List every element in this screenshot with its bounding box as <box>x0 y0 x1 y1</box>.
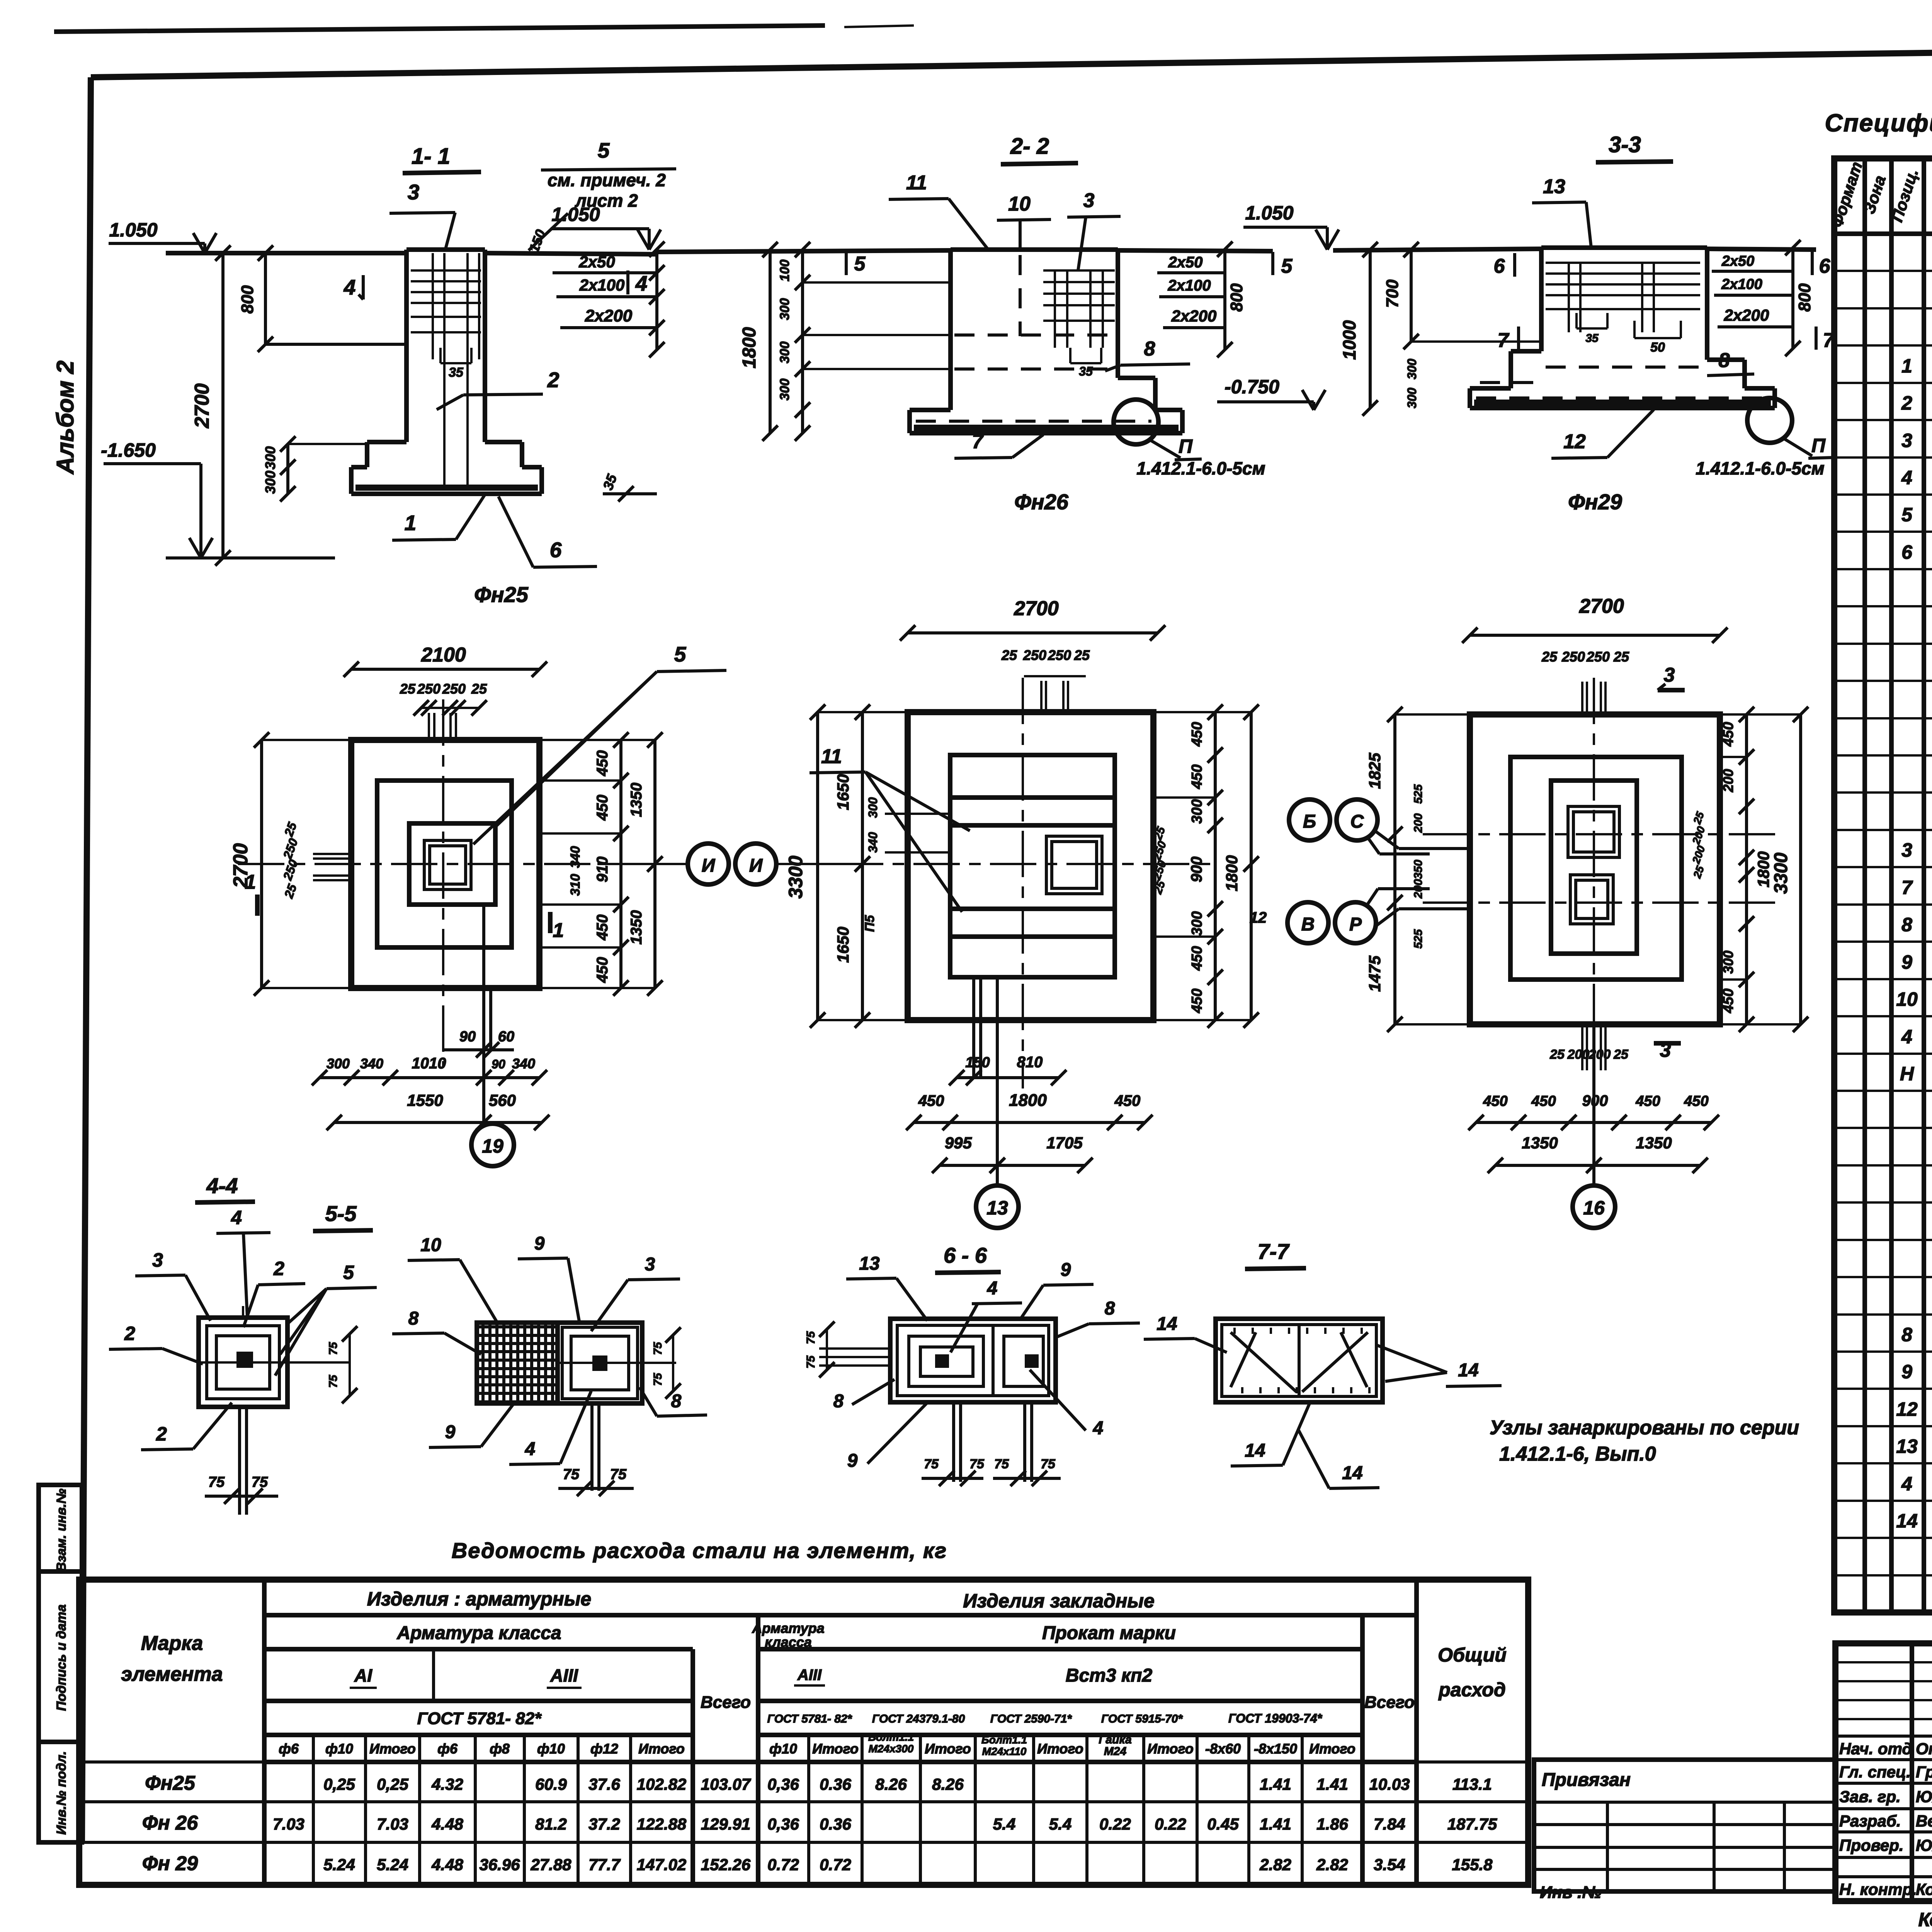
svg-text:3300: 3300 <box>785 855 806 898</box>
svg-text:2х200: 2х200 <box>1724 306 1769 324</box>
svg-text:340: 340 <box>866 832 880 853</box>
svg-text:8: 8 <box>1144 338 1155 360</box>
plan Fn26 mesh band lines <box>950 795 1115 800</box>
svg-text:37.2: 37.2 <box>588 1815 620 1833</box>
svg-text:75: 75 <box>327 1374 340 1388</box>
svg-text:9: 9 <box>1901 1361 1912 1383</box>
svg-text:1475: 1475 <box>1366 956 1384 992</box>
section 1-1 dim 2700 <box>221 253 224 558</box>
svg-text:0,25: 0,25 <box>377 1775 408 1793</box>
svg-text:ГОСТ 19903-74*: ГОСТ 19903-74* <box>1228 1711 1323 1725</box>
svg-text:1.050: 1.050 <box>109 219 157 241</box>
svg-text:Итого: Итого <box>1309 1741 1355 1757</box>
svg-text:1650: 1650 <box>834 927 852 963</box>
svg-text:4: 4 <box>635 271 648 295</box>
svg-text:75: 75 <box>208 1474 225 1490</box>
svg-text:700: 700 <box>1383 279 1402 308</box>
svg-text:ф10: ф10 <box>537 1741 565 1757</box>
svg-text:450: 450 <box>1189 988 1205 1013</box>
section 7-7 body <box>1216 1319 1383 1402</box>
node circle 19 <box>471 1124 514 1166</box>
page outer scan edge top <box>54 26 825 32</box>
section 6-6 body <box>890 1319 1056 1402</box>
steel table small column lines <box>312 1735 315 1885</box>
grid circles I I <box>688 844 729 884</box>
section 5-5 mesh grid <box>481 1325 485 1402</box>
steel table header bands <box>262 1580 267 1885</box>
svg-text:250: 250 <box>1561 649 1585 665</box>
svg-text:Итого: Итого <box>925 1741 971 1757</box>
svg-text:75: 75 <box>1041 1457 1056 1471</box>
svg-text:Гайка: Гайка <box>1099 1733 1131 1746</box>
svg-text:ф6: ф6 <box>437 1741 458 1757</box>
svg-text:Изделия закладные: Изделия закладные <box>963 1590 1155 1612</box>
section 2-2 left dim stack <box>769 250 772 433</box>
svg-text:13: 13 <box>1896 1435 1918 1457</box>
svg-text:Всего: Всего <box>701 1693 751 1712</box>
svg-text:0,36: 0,36 <box>767 1815 799 1833</box>
section 3-3 slab <box>1470 386 1511 391</box>
svg-text:ф6: ф6 <box>279 1741 299 1757</box>
section 3-3 anchor brackets <box>1575 313 1578 328</box>
svg-text:3: 3 <box>1083 189 1095 212</box>
svg-text:300: 300 <box>777 298 792 320</box>
drawing frame border <box>91 43 1932 77</box>
section 1-1 column <box>406 247 485 252</box>
svg-text:2: 2 <box>124 1323 135 1344</box>
svg-text:АI: АI <box>354 1665 372 1685</box>
svg-text:И: И <box>749 855 763 876</box>
svg-text:Арматура: Арматура <box>752 1620 824 1636</box>
svg-text:14: 14 <box>1245 1440 1265 1461</box>
svg-text:300: 300 <box>262 471 278 494</box>
svg-text:В: В <box>1301 914 1315 935</box>
svg-text:450: 450 <box>1720 988 1736 1013</box>
svg-text:Онуфриенко: Онуфриенко <box>1916 1740 1932 1758</box>
svg-text:0.72: 0.72 <box>820 1855 851 1874</box>
svg-text:340: 340 <box>568 846 583 868</box>
section 2-2 ground lines <box>657 250 951 252</box>
privyazan box <box>1534 1760 1835 1891</box>
svg-text:800: 800 <box>1227 283 1246 312</box>
svg-text:7-7: 7-7 <box>1258 1239 1290 1264</box>
svg-text:1.41: 1.41 <box>1260 1775 1291 1793</box>
svg-text:5: 5 <box>598 138 610 162</box>
svg-text:5.24: 5.24 <box>323 1855 355 1874</box>
svg-text:300: 300 <box>777 342 792 364</box>
svg-text:450: 450 <box>1531 1093 1556 1109</box>
plan Fn25 middle rect <box>377 781 512 947</box>
svg-text:147.02: 147.02 <box>637 1855 686 1874</box>
svg-text:300: 300 <box>777 379 792 401</box>
svg-text:1: 1 <box>553 919 564 942</box>
svg-text:Итого: Итого <box>1147 1741 1194 1757</box>
section 2-2 block <box>951 247 1118 252</box>
svg-text:1800: 1800 <box>1009 1091 1047 1110</box>
svg-text:37.6: 37.6 <box>588 1775 620 1793</box>
section 3-3 hidden dash lines <box>1546 366 1700 369</box>
svg-text:9: 9 <box>534 1233 545 1254</box>
svg-text:ГОСТ 24379.1-80: ГОСТ 24379.1-80 <box>872 1713 965 1725</box>
svg-text:10.03: 10.03 <box>1369 1775 1410 1793</box>
svg-text:6: 6 <box>1901 541 1913 563</box>
svg-text:0.36: 0.36 <box>820 1815 851 1833</box>
svg-text:ГОСТ 5781- 82*: ГОСТ 5781- 82* <box>417 1709 542 1728</box>
svg-text:1800: 1800 <box>1754 851 1772 887</box>
svg-text:75: 75 <box>610 1466 627 1483</box>
svg-text:75: 75 <box>563 1466 580 1483</box>
section 3-3 ground lines <box>1333 249 1541 250</box>
svg-text:3: 3 <box>1901 839 1912 861</box>
svg-text:2: 2 <box>547 368 560 392</box>
svg-text:300: 300 <box>866 797 880 818</box>
svg-text:25: 25 <box>1549 1047 1565 1062</box>
svg-text:122.88: 122.88 <box>637 1815 687 1833</box>
svg-text:300: 300 <box>262 446 278 469</box>
svg-text:ф8: ф8 <box>490 1741 510 1757</box>
svg-text:2х100: 2х100 <box>1167 277 1211 294</box>
plan Fn26 leader to node 13 <box>996 977 999 1185</box>
svg-text:0.45: 0.45 <box>1207 1815 1239 1833</box>
plan Fn26 anchor square <box>1046 836 1102 894</box>
plan Fn26 left dim 3300 <box>816 712 819 1020</box>
svg-text:6: 6 <box>550 538 562 562</box>
svg-text:Фн25: Фн25 <box>145 1772 196 1794</box>
svg-text:5: 5 <box>674 642 687 666</box>
svg-text:1: 1 <box>1901 355 1912 377</box>
svg-text:200: 200 <box>1412 879 1425 899</box>
svg-text:1.41: 1.41 <box>1260 1815 1291 1833</box>
plan Fn29 outer rect <box>1470 714 1720 1024</box>
svg-text:0,25: 0,25 <box>323 1775 355 1793</box>
svg-text:3: 3 <box>408 180 420 204</box>
svg-text:75: 75 <box>651 1372 664 1386</box>
plan Fn25 leader to node 19 <box>482 905 485 1124</box>
svg-text:2: 2 <box>156 1423 167 1445</box>
svg-text:35: 35 <box>1585 332 1599 345</box>
svg-text:2х50: 2х50 <box>578 253 615 271</box>
svg-text:7: 7 <box>1823 329 1835 352</box>
plan Fn29 leader to node 16 <box>1592 1024 1595 1185</box>
svg-text:25: 25 <box>471 681 487 697</box>
svg-text:14: 14 <box>1342 1463 1362 1483</box>
svg-text:5.4: 5.4 <box>993 1815 1015 1833</box>
svg-text:расход: расход <box>1438 1679 1506 1701</box>
section 1-1 anchor bolts <box>432 253 434 359</box>
section 1-1 rebar lines <box>411 269 481 272</box>
section 5-5 body <box>477 1323 642 1403</box>
plan Fn29 right dims <box>1745 714 1748 1024</box>
svg-text:Болт1.1: Болт1.1 <box>868 1731 914 1743</box>
svg-text:6: 6 <box>1494 255 1505 277</box>
svg-text:элемента: элемента <box>121 1663 223 1685</box>
svg-text:2.82: 2.82 <box>1316 1855 1348 1874</box>
svg-text:800: 800 <box>238 285 257 314</box>
plan Fn29 anchor square bottom <box>1570 875 1613 924</box>
svg-text:М24х110: М24х110 <box>982 1745 1027 1757</box>
svg-text:77.7: 77.7 <box>588 1855 621 1874</box>
section 4-4 right small dims <box>349 1334 351 1396</box>
svg-text:8: 8 <box>671 1391 682 1412</box>
svg-text:Привязан: Привязан <box>1542 1770 1631 1790</box>
svg-text:1650: 1650 <box>834 774 852 810</box>
svg-text:910: 910 <box>594 857 611 883</box>
svg-text:450: 450 <box>1483 1093 1507 1109</box>
svg-text:6 - 6: 6 - 6 <box>944 1243 987 1267</box>
svg-text:8: 8 <box>1105 1298 1115 1319</box>
svg-text:П5: П5 <box>862 915 877 932</box>
svg-text:3: 3 <box>645 1254 655 1275</box>
svg-text:450: 450 <box>1189 946 1205 971</box>
section 5-5 right small dims <box>672 1335 674 1391</box>
plan Fn25 anchor square <box>424 840 471 889</box>
svg-text:2700: 2700 <box>1579 595 1624 617</box>
svg-text:35: 35 <box>449 365 464 380</box>
svg-text:1550: 1550 <box>407 1091 443 1109</box>
section 7-7 rebar ticks <box>1233 1328 1236 1334</box>
svg-text:9: 9 <box>847 1451 858 1471</box>
svg-text:310: 310 <box>568 874 583 896</box>
svg-text:0.36: 0.36 <box>820 1775 851 1793</box>
svg-text:2х50: 2х50 <box>1721 253 1755 269</box>
svg-text:1825: 1825 <box>1366 753 1384 789</box>
svg-text:Провер.: Провер. <box>1839 1836 1904 1854</box>
plan Fn29 left dims <box>1393 714 1396 1024</box>
svg-text:350: 350 <box>1412 860 1425 879</box>
svg-text:М24х300: М24х300 <box>869 1743 914 1755</box>
section 1-1 ground line <box>166 251 406 255</box>
svg-text:800: 800 <box>1795 283 1814 312</box>
svg-text:2: 2 <box>273 1258 284 1279</box>
svg-text:С: С <box>1350 811 1364 832</box>
svg-text:Фн26: Фн26 <box>1014 490 1069 514</box>
svg-text:Р: Р <box>1349 914 1362 935</box>
svg-text:3: 3 <box>152 1249 163 1271</box>
svg-text:М24: М24 <box>1104 1745 1127 1758</box>
svg-text:10: 10 <box>1896 988 1918 1010</box>
svg-text:Фн25: Фн25 <box>474 582 529 607</box>
svg-text:250: 250 <box>1048 647 1071 663</box>
section 3-3 detail circle <box>1747 398 1792 443</box>
svg-text:1000: 1000 <box>1339 320 1359 360</box>
svg-text:13: 13 <box>859 1253 880 1274</box>
section 5-5 right nested squares <box>562 1327 638 1399</box>
svg-text:8: 8 <box>1901 914 1912 935</box>
svg-text:2х200: 2х200 <box>585 306 633 325</box>
svg-text:Зав. гр.: Зав. гр. <box>1839 1787 1901 1806</box>
svg-text:Взам. инв.№: Взам. инв.№ <box>54 1488 69 1571</box>
svg-text:3300: 3300 <box>1771 852 1791 894</box>
svg-text:10: 10 <box>1008 193 1031 215</box>
svg-text:75: 75 <box>651 1342 664 1355</box>
svg-text:9: 9 <box>1901 951 1912 973</box>
svg-text:200: 200 <box>1412 813 1425 833</box>
svg-text:525: 525 <box>1412 784 1425 804</box>
svg-text:1- 1: 1- 1 <box>412 144 450 169</box>
svg-text:450: 450 <box>1189 722 1205 747</box>
svg-text:0.72: 0.72 <box>767 1855 799 1874</box>
svg-text:Н. контр.: Н. контр. <box>1839 1880 1917 1898</box>
plan Fn26 right dim stack <box>1214 712 1217 1020</box>
svg-text:12: 12 <box>1563 430 1586 453</box>
svg-text:Величко: Величко <box>1916 1812 1932 1830</box>
svg-text:2- 2: 2- 2 <box>1010 134 1049 159</box>
svg-text:103.07: 103.07 <box>701 1775 751 1793</box>
section 2-2 slab <box>910 408 951 412</box>
svg-text:450: 450 <box>594 795 611 821</box>
svg-text:8: 8 <box>1719 349 1730 372</box>
svg-text:25: 25 <box>1074 647 1090 663</box>
specification table row grid <box>1834 270 1932 272</box>
svg-text:35: 35 <box>1079 364 1093 378</box>
svg-text:13: 13 <box>986 1197 1008 1219</box>
svg-text:АIII: АIII <box>550 1665 578 1685</box>
svg-text:П: П <box>1811 435 1826 456</box>
svg-text:0.22: 0.22 <box>1099 1815 1131 1833</box>
node circle 13 <box>976 1185 1019 1228</box>
section 3-3 rebar lines <box>1546 262 1700 264</box>
section 7-7 diagonal braces <box>1231 1332 1296 1392</box>
svg-text:ф10: ф10 <box>325 1741 353 1757</box>
svg-text:300: 300 <box>1720 951 1736 974</box>
svg-text:10: 10 <box>420 1235 441 1255</box>
svg-text:75: 75 <box>252 1474 268 1490</box>
svg-text:450: 450 <box>594 750 611 777</box>
svg-text:Юхтовская: Юхтовская <box>1916 1787 1932 1806</box>
svg-text:Болт1.1: Болт1.1 <box>981 1734 1027 1746</box>
svg-text:4: 4 <box>1901 1473 1912 1495</box>
svg-text:75: 75 <box>924 1457 939 1471</box>
svg-text:60.9: 60.9 <box>535 1775 567 1793</box>
plan Fn26 inner rect <box>950 755 1115 977</box>
svg-text:450: 450 <box>594 915 611 941</box>
svg-text:4: 4 <box>231 1207 242 1228</box>
svg-text:340: 340 <box>512 1056 535 1071</box>
svg-text:-0.750: -0.750 <box>1225 376 1279 398</box>
svg-text:7: 7 <box>1901 877 1913 898</box>
svg-text:7.03: 7.03 <box>377 1815 408 1833</box>
section 3-3 bottom mesh <box>1474 400 1771 406</box>
svg-text:1010: 1010 <box>412 1055 446 1072</box>
svg-text:Всего: Всего <box>1364 1693 1415 1712</box>
svg-text:100: 100 <box>777 260 792 282</box>
steel table data rows <box>79 1760 1528 1764</box>
section 1-1 bottom mesh C1 <box>355 485 538 491</box>
svg-text:60: 60 <box>498 1029 514 1045</box>
svg-text:4.48: 4.48 <box>431 1855 463 1874</box>
svg-text:450: 450 <box>918 1092 944 1109</box>
svg-text:1800: 1800 <box>1223 855 1241 891</box>
svg-text:4.32: 4.32 <box>431 1775 463 1793</box>
svg-text:4: 4 <box>987 1278 998 1299</box>
section 1-1 dim 800 <box>264 253 267 344</box>
svg-text:187.75: 187.75 <box>1447 1815 1497 1833</box>
svg-text:25: 25 <box>1001 647 1017 663</box>
svg-text:4: 4 <box>1901 467 1912 488</box>
title block signature mini-table <box>1835 1643 1932 1901</box>
svg-text:81.2: 81.2 <box>535 1815 567 1833</box>
svg-text:5: 5 <box>854 253 866 275</box>
section 1-1 foundation steps <box>367 440 406 444</box>
svg-text:8.26: 8.26 <box>875 1775 907 1793</box>
svg-text:8.26: 8.26 <box>932 1775 964 1793</box>
svg-text:75: 75 <box>804 1355 817 1369</box>
svg-text:75: 75 <box>969 1457 985 1471</box>
svg-text:Вст3 кп2: Вст3 кп2 <box>1066 1665 1153 1686</box>
svg-text:5.24: 5.24 <box>377 1855 408 1874</box>
svg-text:4: 4 <box>344 275 356 299</box>
svg-text:250: 250 <box>417 681 440 697</box>
svg-text:Итого: Итого <box>1037 1741 1083 1757</box>
svg-text:4: 4 <box>1901 1026 1912 1048</box>
svg-text:250: 250 <box>442 681 466 697</box>
svg-text:150: 150 <box>965 1054 990 1071</box>
svg-text:7: 7 <box>972 430 984 453</box>
svg-text:2х50: 2х50 <box>1168 254 1203 271</box>
svg-text:1350: 1350 <box>1522 1134 1558 1152</box>
svg-text:113.1: 113.1 <box>1452 1775 1492 1793</box>
svg-text:450: 450 <box>594 957 611 983</box>
svg-text:ГОСТ 2590-71*: ГОСТ 2590-71* <box>990 1713 1072 1725</box>
svg-text:Инв .№: Инв .№ <box>1540 1883 1602 1902</box>
svg-text:340: 340 <box>360 1056 383 1071</box>
svg-text:1.050: 1.050 <box>551 204 600 225</box>
plan Fn29 anchor square top <box>1568 806 1619 857</box>
svg-text:ф10: ф10 <box>769 1741 797 1757</box>
svg-text:14: 14 <box>1156 1314 1177 1334</box>
svg-text:90: 90 <box>492 1057 505 1071</box>
plan Fn29 rect step2 <box>1551 781 1637 954</box>
svg-text:450: 450 <box>1635 1093 1660 1109</box>
node circle 16 <box>1573 1185 1615 1228</box>
svg-text:ф12: ф12 <box>590 1741 618 1757</box>
svg-text:Разраб.: Разраб. <box>1839 1812 1901 1830</box>
svg-text:25: 25 <box>1613 1047 1629 1062</box>
svg-text:4-4: 4-4 <box>206 1173 238 1198</box>
svg-text:Гл. спец.: Гл. спец. <box>1839 1763 1911 1781</box>
svg-text:Узлы занаркированы по серии: Узлы занаркированы по серии <box>1490 1417 1799 1439</box>
svg-text:1.412.1-6.0-5см: 1.412.1-6.0-5см <box>1136 458 1265 478</box>
svg-text:Юхтовская: Юхтовская <box>1916 1836 1932 1854</box>
svg-text:27.88: 27.88 <box>530 1855 571 1874</box>
svg-text:Грейнан: Грейнан <box>1916 1763 1932 1781</box>
section 6-6 bolt tails <box>952 1402 955 1482</box>
svg-text:5.4: 5.4 <box>1049 1815 1071 1833</box>
svg-text:8: 8 <box>833 1391 844 1412</box>
svg-text:525: 525 <box>1412 929 1425 949</box>
section 2-2 detail circle <box>1114 400 1158 444</box>
svg-text:Б: Б <box>1303 811 1316 832</box>
plan Fn26 bolt tails bottom <box>972 977 975 1078</box>
svg-text:И: И <box>702 855 716 876</box>
svg-text:2700: 2700 <box>1014 597 1059 620</box>
svg-text:-1.650: -1.650 <box>101 439 156 461</box>
svg-text:0.22: 0.22 <box>1155 1815 1186 1833</box>
svg-text:Итого: Итого <box>812 1741 859 1757</box>
svg-text:810: 810 <box>1017 1054 1043 1071</box>
svg-text:-8х150: -8х150 <box>1254 1741 1297 1757</box>
svg-text:3: 3 <box>1664 664 1675 686</box>
section 6-6 left entry lines <box>819 1347 890 1350</box>
svg-text:50: 50 <box>1650 340 1665 355</box>
svg-text:250: 250 <box>1023 647 1046 663</box>
plan Fn25 right dim stack <box>619 740 622 988</box>
plan Fn26 outer rect <box>908 712 1153 1020</box>
svg-text:4: 4 <box>1093 1418 1104 1439</box>
plan Fn25 anchor bolt stubs top <box>428 713 430 740</box>
svg-text:11: 11 <box>906 172 927 194</box>
svg-text:11: 11 <box>821 745 842 768</box>
